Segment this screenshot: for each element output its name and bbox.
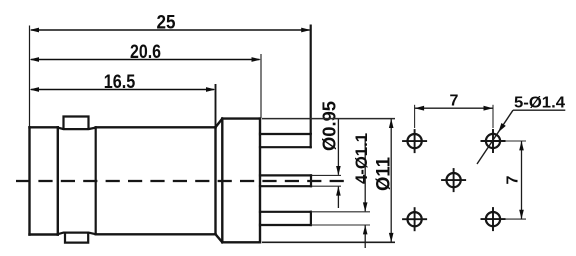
leader line to hole <box>477 110 513 164</box>
footprint hole bottom-right <box>481 207 506 231</box>
dimension 0.95 arrow upper <box>336 166 341 175</box>
dimension 25 line <box>31 29 310 31</box>
footprint dimension 7 vertical arrows <box>519 141 524 150</box>
dimension 16.5 extension line right <box>215 84 217 127</box>
footprint hole center <box>441 168 466 192</box>
leader arrowhead <box>498 123 506 132</box>
dimension 11 line <box>390 119 392 243</box>
footprint dimension 7 horizontal line <box>415 107 493 109</box>
bayonet stud top <box>64 117 89 130</box>
dimension 0.95 arrow lower <box>336 186 341 195</box>
dimension 16.5 arrows <box>30 87 216 92</box>
footprint dimension 7 horizontal extension lines <box>415 105 493 128</box>
svg-text:20.6: 20.6 <box>130 41 161 63</box>
footprint dimension 7 horizontal arrows <box>415 106 425 111</box>
dimension 16.5 line <box>31 89 214 91</box>
main barrel <box>96 127 216 234</box>
dimension 4-1.1 arrow upper <box>363 202 368 211</box>
svg-text:4-Ø1.1: 4-Ø1.1 <box>352 133 371 184</box>
top leg pin <box>260 134 311 147</box>
footprint dimension 7 vertical extension lines <box>506 141 527 219</box>
svg-text:Ø0.95: Ø0.95 <box>319 101 340 151</box>
svg-text:7: 7 <box>450 93 459 110</box>
footprint hole top-right <box>481 129 506 153</box>
extension lines 4x1.1 <box>311 212 370 225</box>
bottom leg pin <box>260 212 311 225</box>
svg-text:Ø11: Ø11 <box>374 157 395 191</box>
center contact pin <box>260 175 311 186</box>
extension line diameter 11 bottom <box>262 241 395 243</box>
svg-text:16.5: 16.5 <box>104 71 136 93</box>
dimension 25 extension line right (to pin tips) <box>310 25 312 135</box>
extension lines diameter 0.95 <box>312 175 341 186</box>
footprint dimension 7 vertical line <box>521 141 523 219</box>
svg-text:7: 7 <box>505 175 522 184</box>
extension lines diameter 11 <box>262 118 395 120</box>
dimension 20.6 extension line right <box>260 54 262 118</box>
footprint hole bottom-left <box>402 207 427 231</box>
dimension 25 extension line left <box>29 26 31 127</box>
dimension 4-1.1 line upper <box>364 137 366 211</box>
connector body: front rim <box>30 127 58 234</box>
dimension 4-1.1 line lower <box>364 225 366 248</box>
bayonet ring section <box>58 127 96 234</box>
bayonet stud bottom <box>65 233 88 243</box>
footprint hole top-left <box>402 129 427 153</box>
dimension 20.6 arrows <box>30 57 262 62</box>
dimension 11 arrows <box>389 119 394 128</box>
svg-text:25: 25 <box>157 12 176 34</box>
leader shoulder line <box>513 109 565 111</box>
centerline axis <box>16 180 350 182</box>
dimension 25 arrows <box>30 28 311 33</box>
dimension 4-1.1 arrow lower <box>363 225 368 234</box>
dimension 0.95 line lower <box>337 187 339 208</box>
flange with chamfers <box>216 119 261 243</box>
dimension 20.6 line <box>31 59 260 61</box>
svg-text:5-Ø1.4: 5-Ø1.4 <box>514 95 565 112</box>
dimension 0.95 line upper <box>337 119 339 175</box>
